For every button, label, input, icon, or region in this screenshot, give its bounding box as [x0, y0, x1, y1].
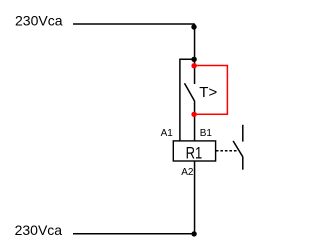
contact R1 NO: blade	[233, 141, 243, 157]
node junction dot top	[191, 24, 196, 29]
wire top 230Vca rail	[73, 23, 195, 25]
svg-text:B1: B1	[200, 128, 213, 139]
node red terminal top of thermal contact	[191, 63, 196, 68]
contact R1 NO: lower terminal	[242, 157, 244, 170]
svg-text:230Vca: 230Vca	[15, 222, 63, 238]
svg-text:R1: R1	[186, 145, 203, 163]
thermal trip boundary box (red, open left side)	[194, 66, 227, 115]
svg-text:230Vca: 230Vca	[15, 12, 63, 28]
wire from thermal contact to B1	[194, 101, 196, 141]
contact R1 NO: upper terminal	[242, 125, 244, 142]
wire main vertical drop to thermal contact	[194, 24, 196, 84]
wire bottom 230Vca rail	[73, 233, 194, 235]
node junction dot A1 branch	[191, 57, 196, 62]
node junction dot bottom	[191, 231, 196, 236]
node red terminal bottom of thermal contact	[191, 112, 196, 117]
thermal contact Q blade	[185, 83, 195, 101]
wire dashed mechanical link from R1 to contact	[216, 150, 238, 152]
wire branch to A1	[180, 59, 194, 141]
wire A2 to bottom rail	[194, 161, 196, 234]
svg-text:A1: A1	[161, 128, 174, 139]
relay coil R1 box	[173, 141, 215, 161]
svg-text:T>: T>	[199, 84, 217, 101]
svg-text:A2: A2	[181, 167, 194, 178]
